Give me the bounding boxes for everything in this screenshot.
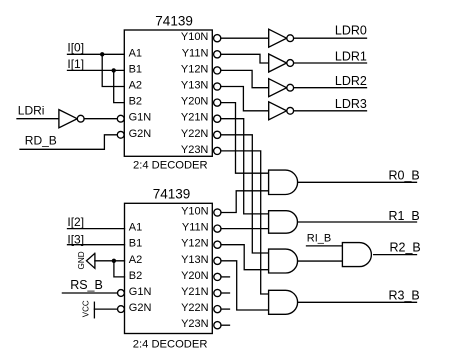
svg-text:Y20N: Y20N	[181, 270, 209, 282]
wire VCC to G2N	[94, 308, 117, 310]
svg-text:A2: A2	[129, 254, 142, 266]
wire R0_B	[298, 181, 417, 183]
svg-text:B1: B1	[129, 238, 142, 250]
wire LDR3	[294, 110, 367, 112]
U7 pin Y21N bubble	[214, 289, 221, 296]
U7 pin Y20N bubble	[214, 273, 221, 280]
U7 pin Y12N bubble	[214, 241, 221, 248]
svg-text:Y10N: Y10N	[181, 206, 209, 218]
U1 pin Y12N bubble	[214, 67, 221, 74]
svg-text:RI_B: RI_B	[307, 233, 331, 245]
wire I[2] to A1	[68, 228, 125, 230]
wire RS_B to G1N	[62, 292, 117, 294]
svg-text:Y13N: Y13N	[181, 254, 209, 266]
wire GND branch to B2	[114, 261, 125, 277]
svg-text:Y12N: Y12N	[181, 238, 209, 250]
svg-text:I[2]: I[2]	[67, 215, 84, 229]
and-gate U11 (R2_B)	[342, 243, 371, 267]
svg-text:Y23N: Y23N	[181, 144, 209, 156]
svg-text:G1N: G1N	[129, 112, 152, 124]
svg-text:LDR2: LDR2	[335, 74, 367, 88]
U1 pin Y22N bubble	[214, 131, 221, 138]
svg-text:Y21N: Y21N	[181, 286, 209, 298]
svg-text:G1N: G1N	[129, 286, 152, 298]
wire U7 Y22N stub	[221, 308, 230, 310]
inverter U2 LDRi	[59, 110, 77, 128]
wire U7 Y12N to AND3 lower	[221, 245, 269, 270]
wire U7 Y13N to AND4 lower	[221, 261, 269, 310]
wire I[1] to B1	[68, 69, 125, 71]
svg-text:2:4 DECODER: 2:4 DECODER	[133, 339, 208, 351]
svg-text:B1: B1	[129, 63, 142, 75]
inverter U5	[269, 79, 287, 97]
svg-text:LDR1: LDR1	[335, 49, 367, 63]
svg-text:Y13N: Y13N	[181, 80, 209, 92]
and-gate U10 (to R2_B)	[269, 249, 298, 273]
svg-text:R1_B: R1_B	[389, 209, 420, 223]
svg-text:Y22N: Y22N	[181, 128, 209, 140]
svg-text:Y22N: Y22N	[181, 302, 209, 314]
svg-text:Y20N: Y20N	[181, 96, 209, 108]
power VCC symbol	[82, 300, 95, 318]
and-gate U8 (R0_B)	[269, 170, 298, 194]
wire Y10N to inverter U3	[221, 37, 269, 39]
U1 pin Y11N bubble	[214, 51, 221, 58]
svg-text:R0_B: R0_B	[389, 168, 420, 182]
svg-text:Y10N: Y10N	[181, 31, 209, 43]
svg-text:R2_B: R2_B	[390, 241, 421, 255]
svg-text:G2N: G2N	[129, 302, 152, 314]
junction GND	[112, 259, 116, 263]
wire R1_B	[298, 221, 417, 223]
U7 pin Y11N bubble	[214, 225, 221, 232]
inverter U4	[269, 54, 287, 72]
wire Y11N to inverter U4	[221, 54, 269, 63]
wire Y22N to AND3 upper	[221, 135, 269, 253]
svg-text:I[0]: I[0]	[67, 41, 84, 55]
U1 pin Y13N bubble	[214, 83, 221, 90]
svg-text:Y12N: Y12N	[181, 63, 209, 75]
wire LDR1	[294, 62, 367, 64]
U7 pin Y10N bubble	[214, 209, 221, 216]
svg-text:VCC: VCC	[82, 300, 91, 317]
inverter U3 bubble	[287, 35, 294, 42]
svg-text:RD_B: RD_B	[25, 133, 57, 147]
and-gate U9 (R1_B)	[269, 211, 298, 234]
junction I[1]	[112, 68, 116, 72]
U1 pin Y20N bubble	[214, 99, 221, 106]
wire U7 Y23N stub	[221, 324, 230, 326]
svg-text:Y23N: Y23N	[181, 318, 209, 330]
svg-text:LDRi: LDRi	[18, 104, 45, 118]
U7 pin G1N bubble	[118, 290, 125, 297]
svg-text:Y11N: Y11N	[182, 47, 209, 59]
wire U7 Y10N to AND1 lower	[221, 191, 269, 213]
svg-text:B2: B2	[129, 270, 142, 282]
svg-text:74139: 74139	[153, 187, 191, 202]
wire RD_B to G2N	[20, 135, 117, 150]
wire I[0] branch to A2	[102, 54, 124, 86]
wire I[3] to B1	[68, 244, 125, 246]
U1 pin Y23N bubble	[214, 147, 221, 154]
svg-text:R3_B: R3_B	[389, 288, 420, 302]
wire R3_B	[298, 301, 417, 303]
svg-text:GND: GND	[77, 251, 86, 269]
wire Y13N to inverter U6	[221, 87, 269, 111]
wire LDR0	[294, 37, 367, 39]
svg-text:Y21N: Y21N	[181, 112, 209, 124]
svg-text:A2: A2	[129, 80, 142, 92]
wire U7 Y21N stub	[221, 292, 230, 294]
U7 pin G2N bubble	[118, 306, 125, 313]
decoder U7 74139 (bottom)	[125, 187, 213, 351]
svg-text:G2N: G2N	[129, 128, 152, 140]
svg-text:I[1]: I[1]	[67, 57, 84, 71]
decoder U1 74139 (top)	[124, 13, 212, 171]
U7 pin Y13N bubble	[214, 257, 221, 264]
U1 pin G1N bubble	[117, 115, 124, 122]
wire AND3 out to AND5	[298, 260, 343, 262]
wire LDRi to inverter	[17, 118, 59, 120]
svg-text:LDR0: LDR0	[335, 23, 367, 37]
wire R2_B	[374, 254, 417, 256]
inverter U6 bubble	[287, 107, 294, 114]
wire Y20N to AND1 upper	[221, 103, 269, 174]
wire U7 Y11N to AND2 lower	[221, 228, 269, 230]
and-gate U12 (R3_B)	[269, 290, 298, 314]
U1 pin G2N bubble	[117, 131, 124, 138]
wire Y21N to AND2 upper	[221, 119, 269, 214]
wire GND to A2	[95, 260, 125, 262]
wire LDR2	[294, 87, 367, 89]
junction I[0]	[100, 52, 104, 56]
inverter U2 bubble	[77, 115, 84, 122]
U7 pin Y22N bubble	[214, 306, 221, 313]
U7 pin Y23N bubble	[214, 322, 221, 329]
wire I[1] branch to B2	[114, 70, 125, 102]
U1 pin Y10N bubble	[214, 35, 221, 42]
inverter U6	[269, 102, 287, 120]
svg-text:B2: B2	[129, 96, 142, 108]
wire RI_B to AND5 upper	[307, 245, 343, 247]
wire I[0] to A1	[68, 53, 125, 55]
inverter U4 bubble	[287, 60, 294, 67]
inverter U5 bubble	[287, 84, 294, 91]
wire U7 Y20N stub	[221, 276, 230, 278]
svg-text:2:4 DECODER: 2:4 DECODER	[133, 159, 208, 171]
wire Y12N to inverter U5	[221, 70, 269, 87]
svg-text:LDR3: LDR3	[335, 97, 367, 111]
svg-text:A1: A1	[129, 222, 142, 234]
inverter U3	[269, 29, 287, 47]
svg-text:74139: 74139	[155, 13, 193, 28]
U1 pin Y21N bubble	[214, 115, 221, 122]
wire inverter U2 to G1N	[84, 118, 117, 120]
wire Y23N to AND4 upper	[221, 151, 269, 294]
svg-text:Y11N: Y11N	[182, 222, 209, 234]
ground symbol	[77, 251, 95, 269]
svg-text:A1: A1	[129, 47, 142, 59]
svg-text:RS_B: RS_B	[70, 278, 103, 292]
